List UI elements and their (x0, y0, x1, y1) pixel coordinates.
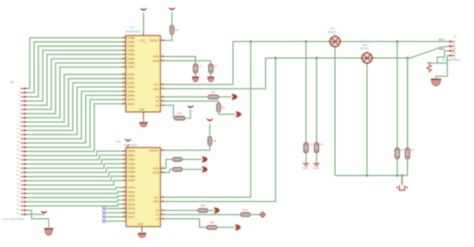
wire JP1 pin 5 to IC1 GPB4 (27, 55, 126, 106)
capacitor C3 (304, 143, 313, 153)
ground symbol below J1 (431, 79, 442, 86)
VCC supply symbol above IC1 (141, 8, 147, 10)
IC2 pin GPB3 stub (122, 163, 126, 165)
wire J1 pin 4 down (436, 56, 448, 79)
resistor R3 on IC1 A1 (217, 103, 226, 112)
IC2 pin SCL stub (160, 196, 164, 198)
connector JP1 pin 11 (21, 129, 28, 132)
svg-text:SDA: SDA (439, 47, 445, 51)
svg-text:A2: A2 (156, 217, 160, 221)
IC1 pin GPB1 stub (122, 41, 126, 43)
pin arrow at IC2 INTB net (202, 166, 208, 172)
wire resistor R3 to pin arrow (219, 112, 236, 114)
connector JP1 pin 12 (21, 133, 28, 136)
wire JP1 pin 19 to IC2 GPB2 (27, 160, 126, 165)
svg-text:SCL: SCL (439, 37, 445, 41)
pin arrow at IC2 INTA net (202, 156, 208, 162)
wire capacitor C4 to ground (316, 153, 318, 164)
VCC supply symbol on IC1 A2 pullup (188, 105, 194, 107)
connector JP1 pin 21 (21, 171, 28, 174)
wire JP1 pin 11 to IC1 GPA2 (27, 83, 126, 131)
svg-text:R5: R5 (213, 139, 217, 143)
connector JP1 pin 2 (21, 91, 28, 94)
svg-text:R1: R1 (175, 28, 179, 32)
resistor R2 on IC1 A0 (208, 90, 219, 99)
connector JP1 pin 3 (21, 96, 28, 99)
small ground below C3 (303, 164, 310, 170)
connector JP1 pin 18 (21, 159, 28, 162)
IC2 pin RESET stub (160, 149, 164, 151)
wire JP1 pin 17 to IC2 GPB0 (27, 151, 126, 156)
IC1 pin A2 stub (160, 104, 164, 106)
VCC supply symbol above R5 (207, 119, 213, 121)
resistor R8 on IC2 A2 (207, 221, 217, 230)
junction bottom rail at C5 (396, 174, 398, 176)
svg-text:VCC: VCC (139, 40, 144, 43)
svg-text:MCP23017: MCP23017 (124, 143, 139, 147)
svg-text:BC547: BC547 (328, 30, 337, 34)
IC2 pin GPB0 stub (122, 150, 126, 152)
wire IC1 GND pin to ground (143, 119, 145, 122)
wire JP1 pin 14 to IC1 GPA5 (27, 95, 126, 143)
connector JP1 pin 13 (21, 138, 28, 141)
wire LP1 down to bottom rail (334, 48, 336, 176)
pin arrow at IC1 A1 net (235, 111, 241, 117)
wire capacitor C5 to bottom rail (396, 159, 398, 176)
wire resistor R5 to VCC (209, 124, 211, 137)
wire IC2 RESET to resistor R5 (165, 145, 210, 150)
IC2 pin GPB7 stub (122, 180, 126, 182)
wire JP1 pin 7 to IC1 GPB6 (27, 63, 126, 114)
connector J1 pin 1 (448, 40, 455, 43)
capacitor C8 on IC2 INTB (173, 167, 182, 171)
svg-text:C6: C6 (411, 148, 415, 152)
wire IC1 SDA to SDA bus riser (165, 58, 266, 89)
wire IC2 INTA to capacitor C7 (165, 159, 173, 168)
junction SCL bus to IC2 SCL (250, 40, 252, 42)
connector JP1 pin 9 (21, 121, 28, 124)
svg-text:R2: R2 (211, 90, 215, 94)
connector J1 pin 2 (448, 45, 455, 48)
IC2 pin GPA1 stub (122, 191, 126, 193)
connector JP1 pin 28 (21, 201, 28, 204)
IC1 pin GPB7 stub (122, 66, 126, 68)
svg-text:A2: A2 (156, 103, 160, 107)
wire JP1 pin 13 to IC1 GPA4 (27, 91, 126, 139)
connector JP1 pin 22 (21, 175, 28, 178)
no-connect X mark 3 at IC2 (102, 215, 105, 218)
IC1 pin GPA1 stub (122, 78, 126, 80)
connector JP1 pin 7 (21, 112, 28, 115)
wire IC1 A2 to resistor R4 (165, 105, 174, 118)
IC2 pin INTA stub (160, 167, 164, 169)
wire JP1 pin 15 to IC1 GPA6 (27, 100, 126, 148)
capacitor C6 (405, 148, 414, 159)
wire IC2 A2 to resistor R8 (165, 219, 207, 228)
svg-text:C3: C3 (309, 143, 313, 147)
connector JP1 pin 1 (21, 87, 28, 90)
IC2 pin SDA stub (160, 201, 164, 203)
VCC supply symbol near JP1 (41, 211, 47, 213)
wire bottom rail stub to earth symbol (401, 176, 403, 178)
junction SCL bus to capacitor C3 (305, 40, 307, 42)
IC2 pin GPB1 stub (122, 154, 126, 156)
net SDA bus horizontal (266, 57, 410, 59)
svg-text:GND: GND (139, 108, 145, 111)
svg-text:GND: GND (313, 167, 319, 170)
IC1 pin SCL stub (160, 84, 164, 86)
connector JP1 pin 4 (21, 100, 28, 103)
wire capacitor C7 to pin arrow (182, 158, 202, 160)
pad symbol at IC2 A1 net (259, 211, 265, 217)
resistor R5 IC2 reset pullup (208, 137, 217, 146)
IC2 pin GPB6 stub (122, 175, 126, 177)
pin arrow at IC2 A0 net (214, 207, 220, 213)
connector JP1 pin 29 (21, 205, 28, 208)
junction SDA bus to capacitor C6 (406, 57, 408, 59)
wire JP1 pin 6 to IC1 GPB5 (27, 59, 126, 110)
wire JP1 pin 3 to IC1 GPB2 (27, 46, 126, 97)
IC1 pin GPB2 stub (122, 45, 126, 47)
wire capacitor C6 to bottom rail (407, 159, 409, 176)
capacitor C7 on IC2 INTA (173, 157, 182, 161)
connector JP1 pin 16 (21, 150, 28, 153)
connector JP1 pin 20 (21, 167, 28, 170)
resistor R4 on IC1 A2 (174, 112, 185, 121)
svg-text:GND: GND (303, 167, 309, 170)
svg-text:R11: R11 (243, 208, 249, 212)
wire IC2 A1 to resistor R7 (165, 214, 241, 216)
svg-text:C4: C4 (320, 143, 324, 147)
wire IC1 RESET to resistor R1 (165, 34, 172, 40)
IC1 pin A1 stub (160, 100, 164, 102)
IC1 pin GPA2 stub (122, 82, 126, 84)
IC2 pin A0 stub (160, 209, 164, 211)
svg-text:IC2: IC2 (116, 139, 121, 143)
svg-text:SDA: SDA (452, 47, 457, 50)
wire JP1 pin 30 to ground (27, 210, 49, 227)
wire JP1 pin 27 to IC2 GPA2 (27, 196, 126, 198)
wire resistor R4 to VCC (185, 109, 191, 118)
wire J1 pin 3 to ground net (437, 51, 448, 63)
wire JP1 pin 22 to IC2 GPB5 (27, 172, 126, 177)
resistor R9 to ground at J1 (427, 63, 432, 73)
small ground below C4 (313, 164, 320, 170)
svg-text:RESET: RESET (150, 148, 160, 152)
svg-text:SDA: SDA (153, 87, 159, 91)
IC2 pin GPB5 stub (122, 171, 126, 173)
wire capacitor C8 to pin arrow (182, 168, 202, 170)
IC2 pin GPA3 stub (122, 199, 126, 201)
IC1 VCC pin stub (143, 33, 145, 36)
capacitor C2 on IC1 INTB (209, 64, 218, 73)
wire IC2 A0 to resistor R6 (165, 209, 199, 211)
connector JP1 pin 19 (21, 163, 28, 166)
IC1 pin GPA3 stub (122, 86, 126, 88)
wire JP1 pin 23 to IC2 GPB6 (27, 176, 126, 181)
IC1 pin RESET stub (160, 39, 164, 41)
connector JP1 pin 23 (21, 180, 28, 183)
IC1 pin GPB0 stub (122, 37, 126, 39)
IC2 pin GPA6 stub (122, 212, 126, 214)
svg-text:GPB7: GPB7 (127, 65, 135, 69)
wire IC1 A1 to resistor R3 (165, 101, 219, 103)
connector JP1 pin 27 (21, 196, 28, 199)
wire stub IC2 no-connect 4 (106, 220, 126, 222)
IC1 pin GPA4 stub (122, 90, 126, 92)
wire JP1 pin 2 to IC1 GPB1 (27, 42, 126, 93)
junction SCL bus to capacitor C5 (396, 40, 398, 42)
connector JP1 pin 24 (21, 184, 28, 187)
net SCL bus horizontal (233, 41, 448, 43)
IC1 pin SDA stub (160, 88, 164, 90)
ground symbol below IC2 (138, 233, 147, 237)
IC2 pin INTB stub (160, 172, 164, 174)
svg-text:GPA7: GPA7 (128, 215, 136, 219)
wire resistor R1 to VCC (171, 12, 173, 25)
svg-text:C5: C5 (400, 148, 404, 152)
op IC1 MCP23017 body (126, 36, 161, 113)
IC1 pin GPA0 stub (122, 73, 126, 75)
ground symbol below C2 (207, 77, 214, 82)
capacitor C5 (395, 148, 404, 159)
no-connect X mark 2 at IC2 (102, 211, 105, 214)
ground symbol below C1 (192, 77, 199, 82)
wire capacitor C2 to ground (210, 73, 212, 77)
wire JP1 pin 24 to IC2 GPB7 (27, 181, 126, 186)
svg-text:R8: R8 (210, 221, 214, 225)
svg-text:GND: GND (452, 53, 457, 55)
wire capacitor C3 to ground (305, 153, 307, 164)
wire JP1 pin 31 to VCC (27, 213, 44, 214)
wire SDA bus rise to connector J1 pin 2 (410, 46, 448, 58)
wire JP1 pin 12 to IC1 GPA3 (27, 87, 126, 135)
svg-text:INTB: INTB (153, 171, 160, 175)
wire LP2 down to bottom rail (366, 64, 368, 175)
connector J1 pin 3 (448, 50, 455, 53)
lamp LP1 on SCL bus (328, 35, 342, 48)
resistor R7 on IC2 A1 (241, 208, 251, 217)
IC2 pin GPA2 stub (122, 195, 126, 197)
connector JP1 pin 15 (21, 146, 28, 149)
connector JP1 pin 31 (21, 213, 28, 216)
wire JP1 pin 10 to IC1 GPA1 (27, 79, 126, 127)
VCC supply symbol above IC2 (125, 139, 131, 141)
no-connect X mark 4 at IC2 (102, 219, 105, 222)
wire capacitor C1 to ground (195, 73, 197, 77)
no-connect X mark 1 at IC2 (102, 207, 105, 210)
wire JP1 pin 18 to IC2 GPB1 (27, 155, 126, 160)
IC1 pin GPA6 stub (122, 99, 126, 101)
wire JP1 pin 20 to IC2 GPB3 (27, 164, 126, 169)
capacitor C1 on IC1 INTA (193, 64, 202, 73)
ground symbol below JP1 (44, 229, 53, 236)
connector J1 pin 4 (448, 54, 455, 57)
wire resistor R9 to J1 pin3 net (429, 62, 437, 64)
wire JP1 pin 8 to IC1 GPB7 (27, 67, 126, 118)
IC1 GND pin stub (143, 112, 145, 119)
svg-text:R4: R4 (178, 112, 182, 116)
svg-text:C1: C1 (199, 64, 203, 68)
connector JP1 pin 25 (21, 188, 28, 191)
wire JP1 pin 21 to IC2 GPB4 (27, 168, 126, 173)
wire JP1 pin 28 to IC2 GPA3 (27, 200, 126, 202)
wire IC2 INTB to capacitor C8 (165, 169, 173, 172)
wire IC2 GND pin to ground (141, 231, 143, 232)
wire resistor R6 to pin arrow (208, 209, 214, 211)
svg-text:C2: C2 (214, 64, 218, 68)
wire JP1 pin 4 to IC1 GPB3 (27, 50, 126, 101)
IC2 pin A2 stub (160, 218, 164, 220)
earth ground symbol below bottom rail (396, 177, 408, 190)
svg-text:SDA: SDA (153, 200, 159, 204)
junction SDA bus to IC2 SDA (274, 57, 276, 59)
resistor R1 IC1 reset pullup (170, 25, 179, 34)
svg-text:J1: J1 (454, 34, 458, 38)
connector JP1 pin 5 (21, 104, 28, 107)
IC1 pin GPB3 stub (122, 49, 126, 51)
IC1 pin A0 stub (160, 96, 164, 98)
IC1 pin GPB4 stub (122, 54, 126, 56)
wire resistor R7 to pad (250, 214, 260, 216)
wire IC1 INTA to capacitor C1 (165, 57, 196, 65)
pin arrow at IC2 A2 net (235, 224, 241, 230)
connector JP1 pin 30 (21, 209, 28, 212)
svg-text:Conn DIL32 Male: Conn DIL32 Male (3, 217, 25, 221)
wire JP1 pin 16 to IC1 GPA7 (27, 104, 126, 152)
IC1 pin GPB6 stub (122, 62, 126, 64)
IC2 GND pin stub (141, 227, 143, 232)
IC1 pin INTA stub (160, 56, 164, 58)
junction bottom rail at LP2 (366, 174, 368, 176)
connector JP1 pin 26 (21, 192, 28, 195)
IC1 pin INTB stub (160, 60, 164, 62)
connector JP1 pin 8 (21, 117, 28, 120)
connector JP1 pin 10 (21, 125, 28, 128)
wire JP1 pin 9 to IC1 GPA0 (27, 74, 126, 122)
junction SDA bus to capacitor C4 (315, 57, 317, 59)
svg-text:JP1: JP1 (10, 80, 16, 84)
wire JP1 pin 26 to IC2 GPA1 (27, 192, 126, 194)
svg-text:R3: R3 (222, 106, 226, 110)
svg-text:R6: R6 (201, 204, 205, 208)
wire SCL bus down to capacitor C3 (305, 42, 307, 143)
wire stub IC2 no-connect 3 (106, 216, 126, 218)
ground symbol below IC1 (139, 123, 148, 127)
IC2 pin GPA7 stub (122, 216, 126, 218)
wire resistor R8 to pin arrow (217, 226, 235, 228)
wire IC1 SCL to SCL bus riser (165, 42, 234, 85)
capacitor C4 (314, 143, 323, 153)
wire stub IC2 no-connect 1 (106, 208, 126, 210)
wire SDA bus down to IC2 SDA (165, 58, 276, 202)
svg-text:RESET: RESET (150, 39, 160, 43)
junction bottom rail at earth stub (401, 174, 403, 176)
IC2 pin GPA0 stub (122, 187, 126, 189)
IC1 pin GPA7 stub (122, 103, 126, 105)
connector JP1 pin 17 (21, 154, 28, 157)
lamp LP2 on SDA bus (360, 51, 374, 64)
svg-text:BC547: BC547 (361, 46, 370, 50)
IC1 pin GPA5 stub (122, 94, 126, 96)
wire resistor R2 to pin arrow (219, 96, 232, 98)
wire JP1 pin 29 to IC2 GPA4 (27, 204, 126, 206)
svg-text:GPB7: GPB7 (128, 179, 136, 183)
wire bottom rail (335, 175, 408, 177)
wire stub IC2 no-connect 2 (106, 212, 126, 214)
wire SCL bus down to IC2 SCL (165, 42, 251, 198)
wire JP1 pin 25 to IC2 GPA0 (27, 188, 126, 190)
wire SCL bus down to capacitor C5 (396, 42, 398, 148)
svg-text:GND: GND (138, 223, 144, 226)
wire IC1 INTB to capacitor C2 (165, 61, 211, 64)
connector JP1 pin 6 (21, 108, 28, 111)
wire JP1 pin 1 to IC1 GPB0 (27, 38, 126, 89)
IC2 VCC pin stub (127, 145, 129, 148)
wire SDA bus down to capacitor C6 (407, 58, 409, 148)
wire IC1 VCC pin to supply (143, 13, 145, 33)
resistor R6 on IC2 A0 (198, 204, 208, 213)
svg-text:I2C Blah Rela: I2C Blah Rela (442, 58, 460, 62)
op IC2 MCP23017 body (126, 148, 160, 227)
svg-text:GPA7: GPA7 (127, 102, 135, 106)
IC2 pin GPB4 stub (122, 167, 126, 169)
wire IC1 A0 to resistor R2 (165, 96, 209, 98)
connector JP1 pin 14 (21, 142, 28, 145)
IC2 pin A1 stub (160, 214, 164, 216)
IC2 pin GPA5 stub (122, 208, 126, 210)
IC1 pin GPB5 stub (122, 58, 126, 60)
svg-text:MCP23017: MCP23017 (126, 29, 141, 33)
VCC supply symbol above R1 (169, 8, 175, 10)
pin arrow at IC1 A0 net (231, 94, 237, 100)
IC2 pin GPA4 stub (122, 203, 126, 205)
wire SDA bus down to capacitor C4 (316, 58, 318, 143)
svg-text:INTB: INTB (153, 59, 160, 63)
IC2 pin GPB2 stub (122, 159, 126, 161)
